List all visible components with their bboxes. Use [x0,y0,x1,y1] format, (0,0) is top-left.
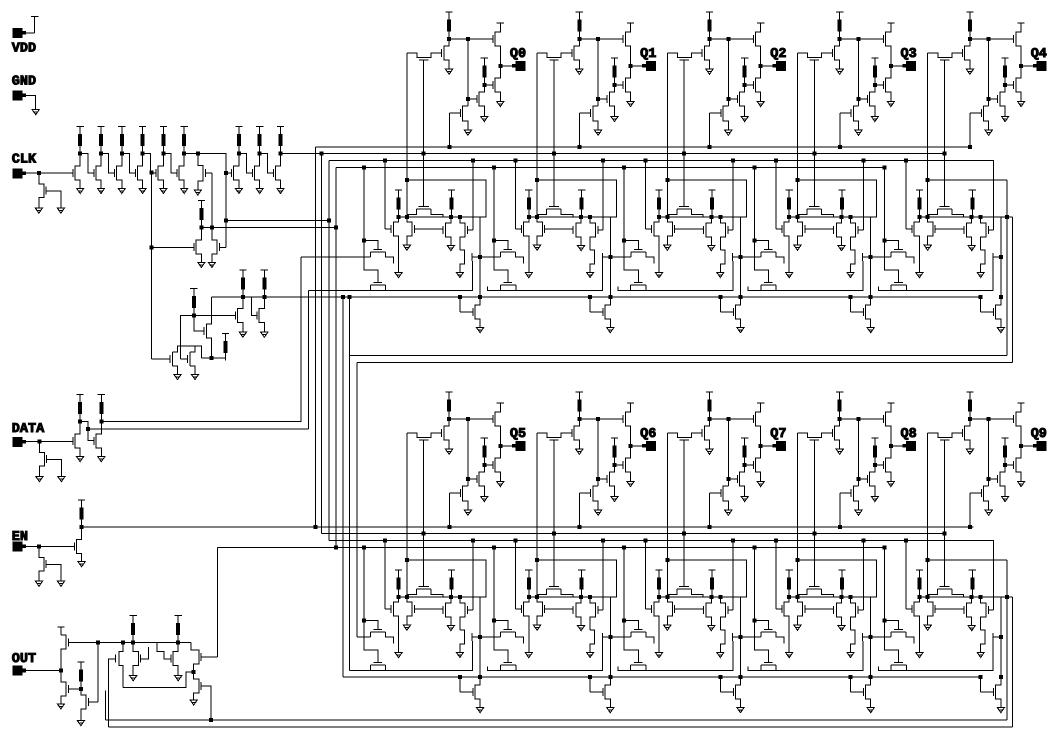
power symbol Q0 driver [497,22,504,24]
node Q5 B gate [466,478,469,481]
pad VDD [13,29,22,38]
wire FF3 R2 gate vert [862,161,864,230]
wire Q6 pad wire [631,445,643,447]
pad Q8 [907,442,916,451]
transistor FF1 latchR [537,217,542,245]
transistor OUT latch R [173,643,178,676]
node FF5 L [397,595,400,598]
node FF6 R1 drain [580,595,583,598]
transistor Q3 driver top [886,23,891,66]
load Q1 inv [576,12,583,39]
node FF5 c [458,595,461,598]
load NANDL [222,334,229,361]
ground CLKDRV2 [261,332,268,337]
svg-text:Q7: Q7 [770,427,786,442]
node FF1 a [536,215,539,218]
wire Q4 inv out [970,38,1014,40]
node FF2 c [719,215,722,218]
ground FF4 R3 [977,272,984,277]
transistor FF8 R1 [836,597,841,626]
pad Q1 [646,62,655,71]
node Q8 B gate [857,478,860,481]
node CLK inv6 out [183,152,186,155]
transistor DATA clamp (input clamp) [39,442,44,477]
wire Q5 latch readback [406,433,408,597]
ground Q2 driver [757,101,764,106]
node FF2 va tap [623,166,626,169]
wire FF5 va [364,548,378,663]
ground Q3 inv [836,69,843,74]
transistor CLK inv1 [75,154,80,189]
transistor FF0 latchR [407,217,412,245]
transistor FF3 R2 [851,217,856,250]
transistor Q7 driver bottom [756,446,761,481]
transistor FF3 latchR [798,217,803,245]
transistor FF6 latchR [537,597,542,625]
node Q4 out [1020,65,1023,68]
wire bus4 phaseB top [336,167,885,169]
ground DATA clamp source [36,477,43,482]
node FF9 va tap [883,546,886,549]
wire Q8 drv gate drop [858,419,860,486]
node FF9 riser rail2 [999,675,1002,678]
node DATAB line [86,428,89,431]
transistor OUT latch L [133,643,138,676]
node FF7 R1 drain [710,595,713,598]
transistor Q2 driver bottom [756,66,761,101]
ground DATA clamp gate [58,477,65,482]
power symbol OUT driver [57,627,64,635]
node Q5 phaseA tap [422,532,425,535]
load Q2 bias [741,58,748,85]
node Q9 drv gate [987,417,990,420]
transistor FF5 F2 [370,662,385,670]
transistor Q9 driver bottom [1016,446,1021,481]
transistor FF6 R3 [590,630,595,653]
pad Q2 [777,62,786,71]
node FF7 rail2 tap [719,675,722,678]
node FF7 R2 clk tap [732,539,735,542]
node FF6 va tap [493,546,496,549]
node OUT [59,669,62,672]
ground FF2 passout [737,328,744,333]
node FF5 riser out [479,635,482,638]
load CLKDRV2 [261,270,268,297]
transistor Q0 B [463,106,468,130]
wire FF2 rail2 drop [719,297,721,312]
node Q2 line179 tap [666,179,669,182]
node DATA [38,440,41,443]
wire Q5 drv gate drop [467,419,469,486]
load FF9 R [969,570,976,597]
transistor FF4 latchR [928,217,933,245]
wire FF5 rail2 drop [459,677,461,692]
wire CLK inv5 to inv6 [163,154,177,174]
ground Q1 inv [576,69,583,74]
node NOR1 out [200,226,203,229]
node NOR1 line tap [334,226,337,229]
node DATA inv2 out [100,420,103,423]
ground FF3 latchR [794,245,801,250]
node FF3 va tap [753,166,756,169]
transistor FF3 pass [798,209,834,217]
node Q1 inv out [578,37,581,40]
node FF6 rail2 tap [589,675,592,678]
load CLK inv4 [139,127,146,154]
transistor Q4 inv [965,39,970,69]
wire CLK inv4 to inv5 [143,154,157,174]
wire rail2 extension [350,355,1007,357]
wire FF2 serial in [610,256,631,258]
transistor NAND left [172,346,201,375]
transistor FF7 latchL [654,597,659,653]
transistor Q6 driver top [625,403,630,446]
transistor Q2 inv [704,39,709,69]
ground Q2 inv [706,69,713,74]
wire FF1 riser [605,217,610,328]
node OUT E1 source [192,670,195,673]
transistor CLK inv7 [234,154,239,189]
ground NAND left [174,374,181,379]
transistor Q2 B [723,106,728,130]
node FF4 riser out [999,255,1002,258]
ground FF5 R1 [447,626,454,631]
transistor Q1 B [593,106,598,130]
wire Q0 pass gate stem [423,60,425,207]
ground Q5 B [464,510,471,515]
pad Q7 [777,442,786,451]
wire Q1 EN tap [579,113,581,147]
wire bus4 drop [335,168,337,548]
wire FF6 R2 gate vert [602,541,604,610]
load FF2 L [655,190,662,217]
ground Q5 inv [446,449,453,454]
ground DATA inv1 [77,457,84,462]
node FF3 R2 clk tap [862,159,865,162]
transistor FF4 passout gate [981,308,994,316]
transistor F7 [198,154,203,190]
ground Q0 A [481,116,488,121]
wire FF5 serial in [357,636,371,638]
transistor DATA inv2 [96,422,101,457]
node Q1 EN tap [578,145,581,148]
transistor FF8 R2 [851,597,856,630]
load Q4 bias [1002,58,1009,85]
node FF5 clk tap [384,539,387,542]
load Q5 inv [446,392,453,419]
node FF2 riser rail2 [739,295,742,298]
power symbol VDD [31,17,38,33]
wire NOR2 gate drop [194,316,204,331]
transistor Q5 driver top [495,403,500,446]
load DATA inv1 [77,395,84,422]
transistor CLK inv4 [137,154,142,189]
node rail2 drop [342,295,345,298]
wire Q2 pass gate stem [683,60,685,207]
node Q9 bias [1004,463,1007,466]
wire bus4b phaseB bottom [218,547,885,549]
wire FF1 bottom segment [488,261,603,291]
wire Q9 drv gate drop [988,419,990,486]
node Q6 EN tap [578,525,581,528]
ground Q5 driver [497,481,504,486]
wire FF0 va [364,168,378,283]
ground CLK inv5 [160,188,167,193]
node rail link top [348,295,351,298]
wire FF3 clk tap [775,161,777,229]
wire CLK inv2 to inv3 [101,154,115,174]
node Q7 inv out [708,417,711,420]
svg-text:OUT: OUT [12,652,36,667]
node FF9 R1 drain [970,595,973,598]
wire FF7 clk tap [645,541,647,609]
pad Q0 [516,62,525,71]
wire Q9 EN tap [969,493,971,527]
load Q7 inv [706,392,713,419]
wire Q8 EN tap [839,493,841,527]
node FF4 clock drop [1005,215,1008,218]
ground CLK inv9 [277,188,284,193]
wire Q4 drv gate drop [988,39,990,106]
ground FF7 passout [737,708,744,713]
ground F7 [194,190,201,195]
wire EN input [25,545,75,547]
ground FF7 R3 [717,652,724,657]
node FF0 riser out [479,255,482,258]
power symbol Q1 driver [627,22,634,24]
wire FF9 va [885,548,899,663]
ground CLK inv4 [139,188,146,193]
wire Q5 inv out [449,418,493,420]
node Q7 line179 tap [666,559,669,562]
wire FF7 rail2 drop [719,677,721,692]
ground FF5 passout [477,708,484,713]
load CLK inv1 [77,127,84,154]
node Q4 line179 tap [926,179,929,182]
wire FF0 R2 gate vert [472,161,474,230]
wire NOR2 out right [194,315,236,317]
node FF2 a [666,215,669,218]
ground Q4 inv [966,69,973,74]
wire bottom lineB left up [109,659,116,727]
node Q3 B gate [857,98,860,101]
power symbol Q9 driver [1018,402,1025,404]
wire FF0 riser [475,217,480,328]
wire OUT cross couple [157,643,171,659]
transistor Q5 pass [407,433,442,438]
node Q3 bias [873,83,876,86]
transistor Q8 pass [798,433,833,438]
node bottom lineA tap [210,719,213,722]
wire CLKDRV coupling [251,297,257,315]
node CLK [37,172,40,175]
wire Q3 pass gate stem [813,60,815,207]
wire NAND out [202,357,226,359]
wire NOR2 out left [180,316,194,359]
pad Q6 [646,442,655,451]
node Q3 drv gate [857,37,860,40]
transistor Q5 inv [444,419,449,449]
pad Q4 [1037,62,1046,71]
transistor FF0 F1 [364,241,382,250]
node Q6 inv out [578,417,581,420]
svg-text:Q8: Q8 [901,427,917,442]
transistor FF7 R2 [720,597,725,630]
transistor CLKDRV2 [259,297,264,332]
transistor FF9 latchR [928,597,933,625]
wire FF2 R2 gate vert [732,161,734,230]
wire Q9 pass gate stem [944,440,946,587]
node Q6 out [629,445,632,448]
ground Q4 B [985,130,992,135]
transistor FF8 F2 [761,662,776,670]
wire Q5 EN tap [448,493,450,527]
wire F7 gate vert [211,173,213,227]
wire FF1 serial in [480,256,501,258]
wire FF7 R2 gate vert [732,541,734,610]
load Q8 inv [836,392,843,419]
ground Q0 driver [497,101,504,106]
svg-text:Q6: Q6 [640,427,656,442]
wire tap inv3out [150,172,152,359]
ground CLKDRV1 [239,332,246,337]
node FF5 va tap [362,546,365,549]
node FF2 va gate [623,239,626,242]
wire rail2 drop [342,297,344,677]
transistor FF5 pass [407,589,443,597]
node FF7 L [658,595,661,598]
transistor EN clamp (input clamp) [39,546,44,581]
wire Q4 pad wire [1021,65,1033,67]
transistor Q1 pass [537,53,572,58]
wire bus3 drop [328,161,330,541]
wire Q1 pad wire [631,65,643,67]
load CLK inv3 [118,127,125,154]
transistor Q8 A [870,465,875,497]
ground FF3 passout [867,328,874,333]
transistor Q6 A [609,465,614,497]
transistor Q8 driver bottom [886,446,891,481]
node Q5 EN tap [448,525,451,528]
ground Q2 B [725,130,732,135]
node Q1 out [629,65,632,68]
transistor CLK inv5 [158,154,163,189]
transistor FF7 R1 [706,597,711,626]
wire FF4 clk tap [905,161,907,229]
load DATA inv2 [98,395,105,422]
wire FF6 riser [605,597,610,708]
wire rail2b [343,676,981,678]
transistor FF6 latchL [524,597,529,653]
transistor Q4 driver bottom [1016,66,1021,101]
load Q6 inv [576,392,583,419]
transistor FF9 R1 [967,597,972,626]
node FF1 L [527,215,530,218]
load Q5 bias [481,438,488,465]
node FF9 c [979,595,982,598]
wire FF2 clk tap [645,161,647,229]
wire Q6 inv out [579,418,623,420]
wire FF3 serial in [741,256,762,258]
ground OUT latch R [175,676,182,681]
ground FF5 latchL [395,653,402,658]
transistor FF9 latchL [914,597,919,653]
ground FF2 latchR [664,245,671,250]
node Q1 B gate [597,98,600,101]
transistor FF6 passout gate [590,688,603,696]
wire Q1 latch readback [536,53,538,217]
transistor Q3 driver bottom [886,66,891,101]
wire Q6 EN tap [579,493,581,527]
node FF4 va tap [883,166,886,169]
node Q3 EN tap [838,145,841,148]
wire Q7 pass gate stem [683,440,685,587]
transistor FF2 F2 [631,282,646,290]
load NOR1 [198,200,205,227]
ground Q6 A [611,496,618,501]
transistor FF3 R1 [836,217,841,246]
transistor Q4 A [1000,85,1005,117]
transistor Q9 pass [928,433,963,438]
transistor Q9 inv [965,419,970,449]
wire DATA line2 [88,428,308,430]
wire FF6 va [494,548,508,663]
wire FF4 serial in [871,256,892,258]
transistor FF0 R2 [460,217,465,250]
load FF1 L [525,190,532,217]
ground FF0 R3 [456,272,463,277]
ground FF9 latchL [916,653,923,658]
node FF6 c [589,595,592,598]
ground FF2 R1 [708,246,715,251]
node FF7 c [719,595,722,598]
transistor Q6 pass [537,433,572,438]
transistor FF9 passout gate [981,688,994,696]
ground Q6 inv [576,449,583,454]
ground Q9 A [1002,496,1009,501]
load Q6 bias [611,438,618,465]
load Q3 bias [871,58,878,85]
load FF7 L [655,570,662,597]
wire Q2 latch readback [666,53,668,217]
wire Q5 pad wire [500,445,512,447]
transistor Q1 inv [574,39,579,69]
load Q0 bias [481,58,488,85]
transistor FF9 pass [928,589,964,597]
node FF6 riser rail2 [609,675,612,678]
svg-text:Q2: Q2 [770,47,786,62]
ground CLK inv2 [97,188,104,193]
load CLK inv9 [277,127,284,154]
transistor FF2 R2 [720,217,725,250]
wire FF4 node rail [919,180,1012,217]
node FF8 R1 drain [840,595,843,598]
transistor FF9 F2 [891,662,906,670]
transistor FF0 passout gate [460,308,473,316]
node Q7 EN tap [708,525,711,528]
ground FF4 passout [997,328,1004,333]
load CLKDRV1 [239,270,246,297]
load CLK inv8 [256,127,263,154]
wire bus2 phaseA top [281,153,945,155]
node FF1 R1 drain [580,215,583,218]
wire rail link [349,297,351,671]
wire Q0 latch readback [406,53,408,217]
wire Q8 inv out [840,418,884,420]
wire DATA line1 [101,257,300,422]
ground FF4 latchL [916,273,923,278]
transistor EN inv [76,527,81,562]
